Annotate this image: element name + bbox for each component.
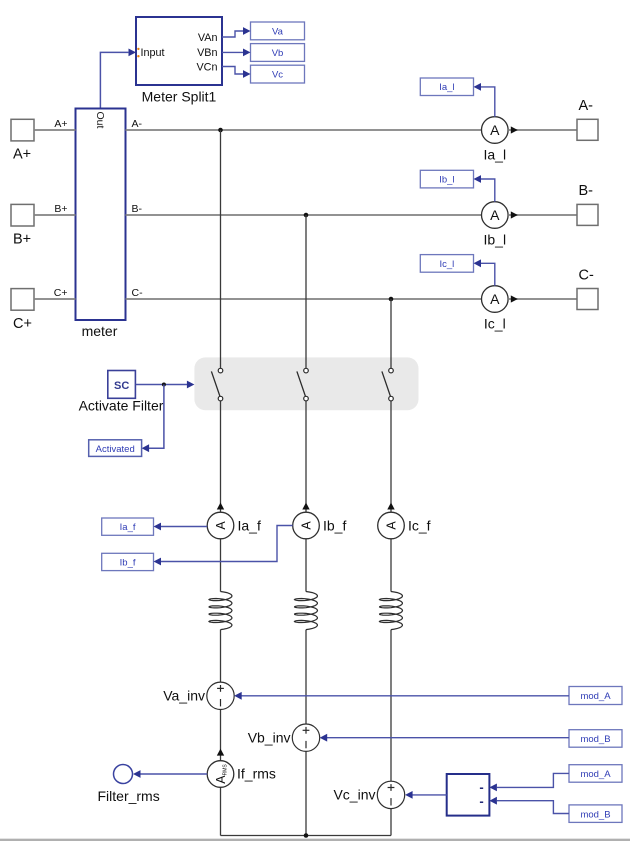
label C+ (13, 316, 32, 332)
svg-text:C+: C+ (54, 287, 68, 299)
wire sum to Vc_inv (405, 791, 447, 799)
label Ib_f (323, 518, 346, 534)
wire mod_A to sum (489, 773, 569, 791)
wire Ib_l output arrow (508, 211, 577, 218)
wire Ia_l meas (474, 83, 495, 117)
block Meter Split1 (136, 17, 222, 85)
ammeter Ib_f (293, 512, 320, 539)
ammeter Ia_l (482, 117, 509, 144)
wire Ib_f meas (154, 526, 293, 566)
block SC (Activate Filter) (108, 371, 136, 399)
svg-text:C+: C+ (13, 316, 32, 332)
svg-text:B-: B- (132, 203, 143, 215)
inductor Lc (380, 592, 403, 630)
node C- junction (389, 297, 394, 302)
label Ic_f (408, 518, 431, 534)
wire meter Out to Meter Split1 Input (100, 52, 129, 108)
tag Ib_l (420, 170, 473, 188)
wire Ic_l meas (474, 259, 495, 285)
tag Vb (251, 44, 305, 62)
arrow current direction If_rms (217, 749, 224, 756)
label Vb_inv (248, 730, 291, 746)
wire VCn to Vc (222, 67, 251, 78)
wire B- from meter (126, 203, 482, 215)
label If_rms (237, 766, 276, 782)
svg-text:Ia_f: Ia_f (120, 522, 136, 533)
svg-text:B+: B+ (54, 203, 67, 215)
svg-text:Ic_l: Ic_l (440, 259, 455, 270)
source Vb_inv (292, 724, 319, 751)
svg-text:VAn: VAn (198, 32, 218, 44)
svg-text:Vb: Vb (272, 48, 284, 59)
svg-text:VCn: VCn (196, 61, 217, 73)
svg-text:meter: meter (82, 323, 118, 339)
svg-text:Ic_l: Ic_l (484, 316, 506, 332)
svg-text:A-: A- (579, 98, 594, 114)
scope Filter_rms (114, 765, 133, 784)
svg-text:C-: C- (132, 287, 144, 299)
wire C- from meter (126, 287, 482, 299)
three-phase breaker panel background (194, 357, 418, 410)
tag Ic_l (420, 255, 473, 273)
tag Ia_f (102, 518, 154, 535)
wire phase A vertical (220, 130, 222, 836)
port A- (577, 119, 598, 140)
wire phase C vertical (390, 299, 392, 836)
label Vc_inv (333, 787, 375, 803)
svg-text:Va_inv: Va_inv (163, 688, 205, 704)
svg-text:Vc: Vc (272, 70, 283, 81)
source Va_inv (207, 682, 234, 709)
node B- junction (304, 213, 309, 218)
svg-text:Activated: Activated (96, 444, 135, 455)
pin Input arrow (129, 49, 137, 57)
node A- junction (218, 128, 223, 133)
label B+ (13, 232, 31, 248)
svg-text:A: A (490, 122, 500, 138)
svg-text:A: A (214, 521, 228, 530)
ammeter Ib_l (482, 202, 509, 229)
svg-text:C-: C- (579, 268, 594, 284)
svg-text:Input: Input (141, 47, 165, 59)
svg-text:Ic_f: Ic_f (408, 518, 431, 534)
tag Ia_l (420, 78, 473, 96)
wire mod_A to Va_inv (234, 692, 569, 700)
tag mod_A (sum) (569, 765, 622, 783)
svg-text:mod_A: mod_A (580, 769, 611, 780)
svg-text:A: A (300, 521, 314, 530)
wire SC to Activated tag (142, 385, 164, 453)
switch S3 (382, 368, 393, 401)
label Ic_l (484, 316, 506, 332)
inductor La (209, 592, 232, 630)
svg-text:-: - (479, 780, 483, 795)
svg-text:Filter_rms: Filter_rms (98, 788, 160, 804)
wire B+ to meter (34, 203, 76, 215)
svg-text:Activate Filter: Activate Filter (79, 398, 164, 414)
port A+ (11, 119, 34, 141)
svg-text:Meter Split1: Meter Split1 (142, 89, 217, 105)
svg-text:Vc_inv: Vc_inv (333, 787, 375, 803)
tag mod_B (Vb_inv) (569, 730, 622, 748)
label Ib_l (484, 232, 507, 248)
wire phase B vertical (305, 215, 307, 836)
ammeter If_rms (207, 761, 234, 788)
wire Ib_l meas (474, 175, 495, 202)
label Activate Filter (79, 398, 164, 414)
inductor Lb (295, 592, 318, 630)
svg-text:A-: A- (132, 118, 143, 130)
label A- (579, 98, 594, 114)
tag mod_B (sum) (569, 805, 622, 823)
svg-text:mod_B: mod_B (580, 809, 610, 820)
label Ia_f (238, 518, 261, 534)
svg-text:Ib_l: Ib_l (439, 175, 454, 186)
svg-text:Out: Out (94, 112, 106, 129)
wire Ic_l output arrow (508, 295, 577, 302)
block sum (negate) (447, 774, 490, 816)
svg-text:Ib_l: Ib_l (484, 232, 507, 248)
port C+ (11, 289, 34, 311)
svg-text:A: A (385, 521, 399, 530)
node SC junction (162, 383, 166, 387)
label Meter Split1 (142, 89, 217, 105)
svg-text:mod_B: mod_B (580, 734, 610, 745)
arrow current direction Ib_f (302, 503, 309, 510)
tag Ib_f (102, 553, 154, 570)
label Va_inv (163, 688, 205, 704)
port B- (577, 204, 598, 225)
svg-text:B+: B+ (13, 232, 31, 248)
wire VBn to Vb (222, 49, 251, 57)
ammeter Ic_l (482, 286, 509, 313)
svg-text:Ib_f: Ib_f (323, 518, 346, 534)
switch S1 (211, 368, 222, 401)
svg-text:-: - (479, 794, 483, 809)
arrow current direction Ia_f (217, 503, 224, 510)
tag Va (251, 22, 305, 40)
tag Vc (251, 65, 305, 83)
svg-text:Ia_l: Ia_l (484, 147, 507, 163)
svg-text:A: A (490, 207, 500, 223)
sample-time markers (orange dots) (137, 48, 139, 58)
svg-text:VBn: VBn (197, 47, 217, 59)
label Ia_l (484, 147, 507, 163)
window bottom border (0, 839, 630, 840)
arrow current direction Ic_f (387, 503, 394, 510)
ammeter Ia_f (207, 512, 234, 539)
wire SC to breaker (136, 381, 195, 389)
svg-text:Ia_f: Ia_f (238, 518, 261, 534)
wire VAn to Va (222, 27, 251, 37)
tag Activated (89, 440, 142, 457)
wire Ia_f meas (154, 523, 208, 531)
node bottom rail junction (304, 833, 309, 838)
block meter (76, 109, 126, 321)
wire Ia_l output arrow (508, 126, 577, 133)
svg-text:If_rms: If_rms (237, 766, 276, 782)
source Vc_inv (377, 781, 404, 808)
wire C+ to meter (34, 287, 76, 299)
svg-text:Va: Va (272, 26, 284, 37)
port C- (577, 289, 598, 310)
label A+ (13, 147, 31, 163)
svg-text:B-: B- (579, 183, 594, 199)
svg-text:mod_A: mod_A (580, 691, 611, 702)
label Filter_rms (98, 788, 160, 804)
wire If_rms meas (133, 770, 207, 778)
tag mod_A (Va_inv) (569, 687, 622, 705)
wire A+ to meter (34, 118, 76, 130)
wire mod_B to Vb_inv (320, 734, 569, 742)
wire bottom return rail (221, 835, 392, 837)
svg-text:Ib_f: Ib_f (120, 558, 136, 569)
label meter (82, 323, 118, 339)
label C- (579, 268, 594, 284)
svg-text:Vb_inv: Vb_inv (248, 730, 291, 746)
port B+ (11, 204, 34, 226)
switch S2 (297, 368, 308, 401)
svg-text:SC: SC (114, 380, 129, 392)
svg-text:Ia_l: Ia_l (439, 82, 454, 93)
wire A- from meter (126, 118, 482, 130)
label B- (579, 183, 594, 199)
ammeter Ic_f (378, 512, 405, 539)
svg-text:A+: A+ (54, 118, 67, 130)
wire mod_B to sum (489, 797, 569, 814)
svg-text:A: A (490, 291, 500, 307)
svg-text:A+: A+ (13, 147, 31, 163)
